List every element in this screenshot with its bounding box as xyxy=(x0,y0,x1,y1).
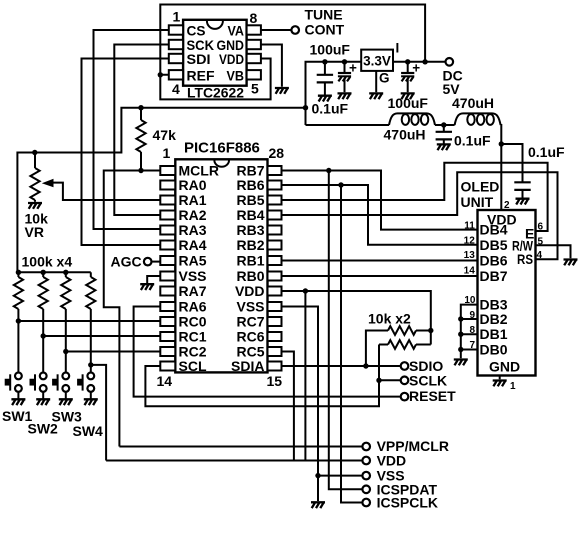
svg-text:CONT: CONT xyxy=(305,22,345,38)
svg-text:470uH: 470uH xyxy=(452,95,494,111)
wire RB0 to OLED DB7 xyxy=(282,275,478,277)
junction R3 top xyxy=(41,270,46,275)
svg-text:ICSPCLK: ICSPCLK xyxy=(377,495,438,511)
svg-text:RB0: RB0 xyxy=(236,268,264,284)
wire RB5 to OLED E xyxy=(282,163,548,231)
wire U1 CS to RA3 xyxy=(94,30,169,229)
resistor R6 10k (SDIO pullup) xyxy=(366,326,431,366)
svg-text:VPP/MCLR: VPP/MCLR xyxy=(377,438,449,454)
svg-text:RA0: RA0 xyxy=(179,177,207,193)
resistor R1 47k pullup on MCLR xyxy=(136,108,145,171)
svg-text:OLED: OLED xyxy=(461,179,500,195)
svg-text:1: 1 xyxy=(173,9,181,25)
capacitor C1 0.1uF ceramic on 3.3V xyxy=(317,62,333,102)
capacitor C2 100uF electrolytic on 3.3V xyxy=(338,60,358,99)
svg-text:470uH: 470uH xyxy=(384,127,426,143)
junction C3 on 5V rail xyxy=(405,59,410,64)
wire VDD to VDD terminal xyxy=(304,291,306,461)
resistor R7 10k (SCLK pullup) xyxy=(379,340,431,349)
terminal ICSPDAT xyxy=(362,486,370,494)
junction DB0 tie xyxy=(458,347,463,352)
svg-text:DB3: DB3 xyxy=(480,296,508,312)
svg-text:RC0: RC0 xyxy=(179,314,207,330)
wire SCL to SCLK terminal xyxy=(145,345,379,407)
svg-text:I: I xyxy=(396,41,400,56)
op-amp/DAC U1 LTC2622 body xyxy=(183,20,247,86)
wire SW1 column xyxy=(17,321,19,372)
ground R/W xyxy=(564,260,578,266)
ground DB bus xyxy=(454,360,468,366)
ground VSS rail xyxy=(311,502,325,508)
svg-text:100uF: 100uF xyxy=(388,95,429,111)
svg-text:TUNE: TUNE xyxy=(305,7,343,23)
svg-text:12: 12 xyxy=(464,235,476,246)
wire RB7 to OLED DB4 xyxy=(282,171,478,230)
wire RC1 to SW2 column xyxy=(43,335,160,337)
U1 pin CS box xyxy=(169,25,183,34)
terminal RESET xyxy=(401,393,409,401)
wire 3.3V distribution to left side xyxy=(17,108,305,273)
svg-text:14: 14 xyxy=(157,373,173,389)
capacitor C3 100uF electrolytic on 5V xyxy=(401,60,421,99)
svg-text:RS: RS xyxy=(517,251,533,267)
OLED pin names right xyxy=(512,225,534,266)
wire SW3 column xyxy=(65,352,67,373)
U2 right pin boxes RB7..SDIA xyxy=(268,166,282,371)
svg-text:VR: VR xyxy=(25,224,44,240)
resistor R3 100k xyxy=(39,272,48,336)
terminal SCLK xyxy=(401,377,409,385)
ground OLED GND xyxy=(493,381,507,387)
U2 right pin names xyxy=(231,163,265,375)
svg-text:GND: GND xyxy=(489,359,520,375)
svg-text:1: 1 xyxy=(510,381,516,392)
svg-text:RA6: RA6 xyxy=(179,299,207,315)
svg-text:RC1: RC1 xyxy=(179,329,207,345)
wire VPP/MCLR line xyxy=(119,446,362,448)
svg-text:G: G xyxy=(379,71,390,86)
U2 left pin names xyxy=(179,163,219,375)
svg-text:SCLK: SCLK xyxy=(409,373,447,389)
junction DB2 tie xyxy=(458,316,463,321)
junction C4 node xyxy=(441,122,446,127)
svg-text:SDI: SDI xyxy=(187,51,211,67)
svg-text:3.3V: 3.3V xyxy=(363,54,391,69)
svg-text:4: 4 xyxy=(536,250,542,261)
svg-text:VDD: VDD xyxy=(235,283,265,299)
wire U1 GND to ground xyxy=(261,45,282,87)
terminal VSS xyxy=(362,472,370,480)
wire RB4 to OLED RS xyxy=(282,172,558,259)
wire RC0 to SW1 column xyxy=(18,320,159,322)
svg-text:DB2: DB2 xyxy=(480,311,508,327)
svg-text:SW4: SW4 xyxy=(73,423,104,439)
wire OLED GND lead xyxy=(499,376,501,380)
junction OLED VDD node xyxy=(499,141,504,146)
regulator 3.3V box xyxy=(361,50,393,71)
wire R/W to ground xyxy=(536,245,571,258)
wire U1 SCK to RA2 xyxy=(114,45,169,216)
switch SW3 xyxy=(52,373,73,406)
svg-text:SW2: SW2 xyxy=(28,421,59,437)
wire VDD terminal line xyxy=(106,460,362,462)
svg-text:VDD: VDD xyxy=(377,453,407,469)
wire RB1 to OLED DB6 xyxy=(282,260,478,262)
terminal VPP/MCLR xyxy=(362,443,370,451)
junction VSS ground tap xyxy=(315,473,320,478)
svg-text:RESET: RESET xyxy=(409,388,456,404)
wire VDD pin to pullups xyxy=(282,291,431,345)
junction LTC supply loop on 5V rail xyxy=(422,59,427,64)
wire U1 VA to TUNE CONT terminal xyxy=(261,29,291,31)
junction SCLK tap xyxy=(376,378,381,383)
svg-text:4: 4 xyxy=(172,81,180,97)
svg-text:DB1: DB1 xyxy=(480,326,508,342)
wire ICSPCLK from RB6 xyxy=(341,185,362,503)
svg-text:RB2: RB2 xyxy=(236,237,264,253)
wire DB3-DB0 tie-down bus xyxy=(461,305,478,359)
junction ICSPDAT tap on RB7 xyxy=(326,168,331,173)
junction C1 on 3.3V rail xyxy=(322,59,327,64)
svg-text:+: + xyxy=(412,60,420,75)
terminal DC input xyxy=(446,58,454,66)
switch SW1 xyxy=(5,373,26,406)
U1 pin REF box xyxy=(169,70,183,79)
wire RC2 to SW3 column xyxy=(66,351,160,353)
terminal TUNE CONT xyxy=(291,26,299,34)
svg-text:0.1uF: 0.1uF xyxy=(528,144,565,160)
ground regulator xyxy=(369,93,383,99)
svg-text:VB: VB xyxy=(227,67,245,83)
capacitor C5 0.1uF at OLED xyxy=(501,144,530,205)
wire RA6 to RESET terminal xyxy=(134,307,401,397)
junction 10k pullup on SDIO xyxy=(363,363,368,368)
U1 pin VA box xyxy=(247,25,261,34)
terminal AGC xyxy=(144,258,152,266)
svg-text:DB6: DB6 xyxy=(480,252,508,268)
junction 10k pair right end xyxy=(428,328,433,333)
ground U1 GND xyxy=(275,88,289,94)
junction 3.3V distribution node xyxy=(303,105,308,110)
svg-text:RA7: RA7 xyxy=(179,283,207,299)
svg-text:RB4: RB4 xyxy=(236,207,264,223)
svg-text:2: 2 xyxy=(504,200,510,211)
junction 47k bottom on MCLR wire xyxy=(138,168,143,173)
wire AGC to RA5 xyxy=(152,261,160,263)
wire RC5 down xyxy=(282,352,294,461)
junction R4 top xyxy=(63,270,68,275)
svg-text:1: 1 xyxy=(163,145,171,161)
svg-text:100uF: 100uF xyxy=(310,42,351,58)
svg-text:8: 8 xyxy=(250,10,258,26)
wire U1 SDI to RA4 xyxy=(82,59,169,246)
svg-text:PIC16F886: PIC16F886 xyxy=(184,140,260,157)
display module body xyxy=(478,210,536,376)
resistor R4 100k xyxy=(61,272,70,351)
junction SW1/RC0 xyxy=(16,318,21,323)
svg-text:100k x4: 100k x4 xyxy=(22,254,73,270)
switch SW4 xyxy=(77,373,98,406)
microcontroller U2 PIC16F886 body xyxy=(175,159,267,372)
wire 3.3V rail xyxy=(306,62,362,125)
svg-text:47k: 47k xyxy=(153,127,177,143)
U1 pin SDI box xyxy=(169,54,183,63)
svg-text:13: 13 xyxy=(464,250,476,261)
svg-text:RB1: RB1 xyxy=(236,253,264,269)
capacitor C4 0.1uF ceramic xyxy=(436,125,452,150)
wire SDIA to SDIO terminal xyxy=(282,365,401,367)
svg-text:AGC: AGC xyxy=(111,254,142,270)
junction R2 top xyxy=(16,270,21,275)
wire SW4 branch to RC5 net xyxy=(91,365,106,461)
junction SW2/RC1 xyxy=(41,333,46,338)
junction C2 on 3.3V rail xyxy=(342,59,347,64)
svg-text:5: 5 xyxy=(251,81,259,97)
wire ICSPDAT from RB7 xyxy=(329,171,363,490)
wire left VSS to ground xyxy=(147,276,160,283)
svg-text:0.1uF: 0.1uF xyxy=(454,133,491,149)
svg-text:VDD: VDD xyxy=(219,51,244,67)
wire SW4 column xyxy=(90,365,92,373)
wire VSS terminal line xyxy=(318,475,362,477)
svg-text:VSS: VSS xyxy=(236,299,264,315)
svg-text:RB5: RB5 xyxy=(236,192,264,208)
svg-text:DB5: DB5 xyxy=(480,237,508,253)
terminal SDIO xyxy=(401,362,409,370)
wire 5V rail to DC jack xyxy=(393,61,445,63)
svg-text:RA4: RA4 xyxy=(179,237,207,253)
switch SW2 xyxy=(30,373,51,406)
U1 pin VDD box xyxy=(247,54,261,63)
wire VSS pin down xyxy=(282,307,319,502)
svg-text:REF: REF xyxy=(187,67,215,83)
wire SCLK terminal stub xyxy=(379,379,401,381)
junction DB1 tie xyxy=(458,332,463,337)
svg-text:DB0: DB0 xyxy=(480,341,508,357)
terminal ICSPCLK xyxy=(362,499,370,507)
svg-text:SCL: SCL xyxy=(179,358,207,374)
inductor L2 470uH xyxy=(455,113,501,125)
inductor L1 470uH xyxy=(389,113,435,125)
svg-text:RC6: RC6 xyxy=(236,329,264,345)
ground left VSS xyxy=(140,284,154,290)
U2 left pin boxes MCLR..SCL xyxy=(160,166,175,371)
svg-text:DB7: DB7 xyxy=(480,268,508,284)
svg-text:VSS: VSS xyxy=(179,268,207,284)
svg-text:+: + xyxy=(349,60,357,75)
junction ICSPCLK tap on RB6 xyxy=(338,182,343,187)
svg-text:6: 6 xyxy=(537,221,543,232)
junction SW3/RC2 xyxy=(63,349,68,354)
wire 100k pullup rail xyxy=(17,271,90,273)
svg-text:RA2: RA2 xyxy=(179,207,207,223)
resistor R5 100k xyxy=(86,272,95,365)
wire filtered 3.3V rail with inductors xyxy=(306,124,502,210)
U1 pin SCK box xyxy=(169,40,183,49)
resistor R2 100k xyxy=(14,272,23,321)
svg-text:10k x2: 10k x2 xyxy=(368,311,411,327)
wire REF/VDD supply loop xyxy=(160,5,425,100)
wire MCLR to VPP routing xyxy=(104,171,160,447)
svg-text:RA3: RA3 xyxy=(179,222,207,238)
svg-text:28: 28 xyxy=(269,145,285,161)
svg-text:14: 14 xyxy=(464,265,476,276)
potentiometer VR1 10k body xyxy=(28,153,42,209)
wire regulator ground lead xyxy=(375,71,377,92)
svg-text:RC7: RC7 xyxy=(236,314,264,330)
terminal VDD xyxy=(362,457,370,465)
svg-text:LTC2622: LTC2622 xyxy=(187,85,244,101)
VR1 wiper arrow to RA1 xyxy=(42,179,160,200)
svg-text:RA1: RA1 xyxy=(179,192,207,208)
svg-text:15: 15 xyxy=(267,373,283,389)
svg-text:DB4: DB4 xyxy=(480,222,508,238)
U1 pin VB box xyxy=(247,70,261,79)
junction REF loop xyxy=(158,72,163,77)
svg-text:0.1uF: 0.1uF xyxy=(312,101,349,117)
OLED pin names left xyxy=(480,222,508,358)
U1 pin GND box xyxy=(247,40,261,49)
svg-text:RB6: RB6 xyxy=(236,177,264,193)
svg-text:SDIA: SDIA xyxy=(231,358,264,374)
svg-text:UNIT: UNIT xyxy=(461,194,494,210)
junction SW4 branch xyxy=(88,362,93,367)
svg-text:RA5: RA5 xyxy=(179,253,207,269)
junction VR1 top on 3.3V line xyxy=(32,150,37,155)
svg-text:11: 11 xyxy=(464,220,475,231)
OLED pin number labels xyxy=(464,220,544,392)
svg-text:RB3: RB3 xyxy=(236,222,264,238)
wire RB6 to OLED DB5 xyxy=(282,185,478,245)
junction VDD down-feed xyxy=(303,288,308,293)
wire SW2 column xyxy=(42,336,44,372)
junction 47k top on 3.3V line xyxy=(138,105,143,110)
